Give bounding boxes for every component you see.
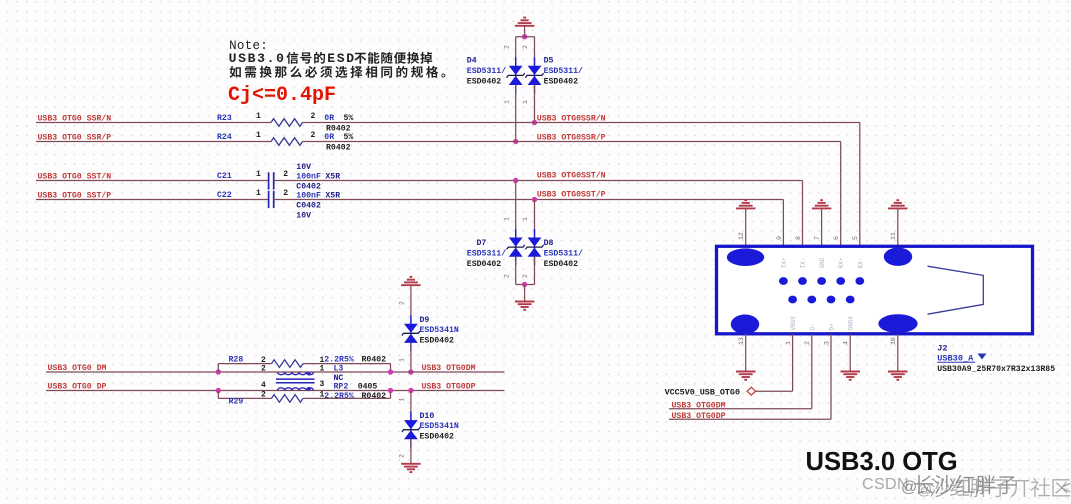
resistor R28: [272, 360, 304, 368]
power port VCC5V0_USB_OTG0 diamond: [747, 387, 755, 395]
wire SSR/N drop to J2 pin5: [859, 123, 861, 247]
svg-text:2: 2: [283, 170, 288, 179]
svg-text:1: 1: [256, 170, 261, 179]
wire J2 pin10 to ground: [897, 334, 899, 371]
ESD diode D4: [507, 57, 525, 93]
label D10 footprint ESD0402: [420, 433, 454, 442]
label C21 footprint C0402: [296, 183, 321, 192]
wire D7/D8 bottom bar: [516, 284, 535, 286]
ground GND above J2 pin11: [888, 200, 908, 208]
svg-text:1: 1: [504, 217, 511, 221]
note text line 2 (chinese): [230, 66, 446, 78]
wire USB3_OTG0_SSR/N right segment: [303, 122, 860, 124]
svg-text:2: 2: [399, 454, 406, 458]
svg-text:4: 4: [843, 341, 850, 345]
label C21 value 100nF X5R: [296, 172, 340, 181]
wire D10 pin1 lead: [410, 391, 412, 421]
label C22 footprint C0402: [296, 202, 321, 211]
label L3: [334, 364, 344, 373]
ESD diode D10: [402, 412, 420, 448]
svg-text:1: 1: [785, 341, 792, 345]
svg-text:D5: D5: [544, 56, 554, 65]
wire J2 pin1 VBUS drop: [792, 334, 794, 391]
inductor L3 winding (DM): [278, 372, 314, 375]
junction R28 branch right on DM: [388, 369, 393, 374]
svg-text:ESD0402: ESD0402: [544, 260, 578, 269]
label D8: [544, 239, 554, 248]
svg-text:ESD5341N: ESD5341N: [420, 326, 459, 335]
wire SST/N drop to J2 pin8: [802, 181, 804, 247]
wire D4 pin1 lead to SSR/P: [515, 85, 517, 142]
J2 shell pad top-left (pin 12): [727, 248, 764, 266]
svg-text:3: 3: [823, 341, 830, 345]
junction R28 branch left on DM: [216, 369, 221, 374]
svg-text:9: 9: [776, 236, 783, 240]
svg-text:<: <: [1060, 478, 1071, 499]
svg-text:10: 10: [890, 337, 897, 345]
svg-text:0R: 0R: [324, 114, 334, 123]
label D5: [544, 56, 554, 65]
svg-text:7: 7: [814, 236, 821, 240]
svg-text:D-: D-: [809, 323, 816, 330]
junction D10 on DP: [408, 388, 413, 393]
label D8 footprint ESD0402: [544, 260, 578, 269]
wire D10 pin2 lead: [410, 439, 412, 464]
svg-text:1: 1: [320, 365, 325, 374]
junction D4/D5 common node: [522, 34, 527, 39]
svg-text:R0402: R0402: [326, 144, 351, 153]
svg-text:2: 2: [283, 189, 288, 198]
svg-text:TX-: TX-: [800, 258, 807, 269]
label R23: [217, 114, 232, 123]
junction D7 on SST/N: [513, 178, 518, 183]
wire D4/D5 top bar: [516, 36, 535, 38]
wire SST/P drop to J2 pin9: [782, 200, 784, 247]
wire R28 branch left riser: [217, 364, 219, 372]
connector J2 body: [717, 246, 1033, 333]
wire D7 pin2 lead: [515, 256, 517, 284]
svg-text:R29: R29: [229, 397, 244, 406]
wire R28 branch right riser: [390, 364, 392, 372]
svg-text:Cj<=0.4pF: Cj<=0.4pF: [228, 84, 336, 107]
svg-text:2: 2: [522, 45, 529, 49]
svg-text:ESD0402: ESD0402: [467, 77, 501, 86]
label R29 value 2.2R5%: [324, 392, 386, 401]
svg-text:TX+: TX+: [781, 257, 788, 268]
svg-text:12: 12: [738, 232, 745, 240]
svg-text:RP2: RP2: [334, 383, 349, 392]
wire R28 branch left segment: [218, 363, 271, 365]
svg-text:0405: 0405: [358, 383, 378, 392]
svg-text:ESD0402: ESD0402: [420, 433, 454, 442]
svg-text:4: 4: [261, 381, 266, 390]
wire ground stem to junction: [524, 26, 526, 37]
svg-text:1: 1: [399, 358, 406, 362]
resistor R29: [272, 395, 304, 403]
svg-text:5: 5: [852, 236, 859, 240]
J2 shell pad top-right (pin 11): [884, 248, 912, 266]
svg-text:ESD0402: ESD0402: [467, 260, 501, 269]
ESD diode D7: [507, 229, 525, 265]
svg-text:0R: 0R: [324, 133, 334, 142]
junction D9 on DM: [408, 369, 413, 374]
J2 contact dots (USB2 row): [788, 296, 854, 304]
wire USB3_OTG0_SSR/P right segment: [303, 141, 841, 143]
svg-text:2: 2: [504, 274, 511, 278]
svg-text:USB3.0 OTG: USB3.0 OTG: [806, 448, 958, 476]
ground GND (above D9): [401, 277, 421, 285]
wire D8 pin1 lead: [534, 200, 536, 238]
svg-text:ESD: ESD: [327, 51, 356, 66]
label D4 footprint ESD0402: [467, 77, 501, 86]
svg-text:11: 11: [890, 232, 897, 240]
wire D9 pin1 lead to DM: [410, 343, 412, 373]
svg-text:C0402: C0402: [296, 183, 321, 192]
label J2 value USB30_A_V: [937, 354, 986, 364]
svg-text:3: 3: [320, 380, 325, 389]
wire J2 pin3 riser: [830, 334, 832, 419]
label R24: [217, 133, 232, 142]
label D7: [477, 239, 487, 248]
svg-text:2: 2: [522, 274, 529, 278]
label D8 value ESD5311/: [544, 249, 583, 259]
svg-text:@: @: [901, 479, 917, 496]
svg-text:USB3 OTG0DP: USB3 OTG0DP: [422, 383, 476, 392]
svg-text:2: 2: [804, 341, 811, 345]
svg-text:J2: J2: [937, 343, 947, 353]
label C21: [217, 172, 232, 181]
resistor R23: [271, 119, 303, 127]
svg-text:R28: R28: [229, 356, 244, 365]
wire USB3_OTG0_SSR/P left segment: [36, 141, 271, 143]
junction D8 on SST/P: [532, 197, 537, 202]
wire R29 branch left riser: [217, 391, 219, 399]
svg-text:ESD5311/: ESD5311/: [544, 66, 583, 76]
ESD diode D8: [525, 229, 543, 265]
wire J2 pin13 to ground: [745, 334, 747, 371]
label R28: [229, 356, 244, 365]
svg-text:R24: R24: [217, 133, 232, 142]
svg-text:1: 1: [256, 112, 261, 121]
svg-text:1: 1: [256, 131, 261, 140]
svg-text:2: 2: [504, 45, 511, 49]
wire USB3_OTG0DP to J2 pin3: [669, 418, 831, 420]
svg-text:USB3 OTG0DM: USB3 OTG0DM: [422, 364, 476, 373]
resistor R24: [271, 138, 303, 146]
wire D4 pin2 lead: [515, 37, 517, 66]
svg-text:ESD0402: ESD0402: [544, 77, 578, 86]
svg-text:USB3 OTG0SST/P: USB3 OTG0SST/P: [537, 189, 606, 199]
wire D7 pin1 lead: [515, 181, 517, 238]
svg-text:RX+: RX+: [838, 257, 845, 268]
svg-text:1: 1: [522, 217, 529, 221]
label NC: [334, 374, 344, 383]
wire stub GND above J2 pin7: [821, 208, 823, 246]
junction D5 on SSR/N: [532, 120, 537, 125]
watermark ghost layer: [917, 478, 1071, 499]
wire stub GND above J2 pin11: [897, 208, 899, 246]
svg-text:1: 1: [504, 100, 511, 104]
svg-text:D8: D8: [544, 239, 554, 248]
svg-text:2: 2: [311, 112, 316, 121]
svg-text:2: 2: [261, 390, 266, 399]
label D10: [420, 412, 435, 421]
label C22 value 100nF X5R: [296, 191, 340, 200]
wire USB3_OTG0_SST/N right segment: [274, 180, 803, 182]
J2 shell pad bottom-right (pin 10): [878, 314, 917, 333]
wire R28 branch right segment: [303, 363, 391, 365]
label D7 value ESD5311/: [467, 249, 506, 259]
wire USB3_OTG0_DP main: [46, 390, 505, 392]
label R24 footprint R0402: [326, 144, 351, 153]
J2 shell pad bottom-left (pin 13): [731, 315, 759, 335]
svg-text:D9: D9: [420, 316, 430, 325]
label J2 footprint USB30A9_25R70x7R32x13R85: [937, 365, 1055, 374]
svg-text:USB3.0: USB3.0: [229, 51, 286, 66]
ground GND above J2 pin7: [812, 200, 832, 208]
wire D5 pin2 lead: [534, 37, 536, 66]
label C21 voltage 10V: [296, 163, 311, 172]
wire USB3_OTG0_SST/P right segment: [274, 199, 784, 201]
svg-text:8: 8: [795, 236, 802, 240]
wire J2 pin4 to ground: [849, 334, 851, 371]
label D9 footprint ESD0402: [420, 337, 454, 346]
svg-text:10V: 10V: [296, 211, 311, 220]
svg-text:ESD0402: ESD0402: [420, 337, 454, 346]
label RP2 0405: [334, 383, 378, 392]
svg-text:USB3 OTG0SST/N: USB3 OTG0SST/N: [537, 170, 606, 180]
ground GND (top, D4/D5): [515, 18, 535, 26]
label C22 voltage 10V: [296, 211, 311, 220]
wire J2 pin2 riser: [811, 334, 813, 409]
ESD diode D5: [525, 57, 543, 93]
label R23 value 0R 5%: [324, 114, 353, 123]
svg-text:USB3 OTG0SSR/P: USB3 OTG0SSR/P: [537, 132, 606, 142]
wire USB3_OTG0_SST/N left segment: [36, 180, 268, 182]
wire D8 pin2 lead: [534, 256, 536, 284]
ground GND below J2 pin10: [888, 372, 908, 380]
wire USB3_OTG0DM to J2 pin2: [669, 408, 812, 410]
label D4 value ESD5311/: [467, 66, 506, 76]
svg-text:ESD5311/: ESD5311/: [467, 66, 506, 76]
label D9: [420, 316, 430, 325]
svg-text:ESD5341N: ESD5341N: [420, 422, 459, 431]
junction R29 branch right on DP: [388, 388, 393, 393]
choke core bars RP2: [276, 379, 315, 383]
svg-text:D7: D7: [477, 239, 487, 248]
svg-text:C0402: C0402: [296, 202, 321, 211]
svg-text:2: 2: [399, 301, 406, 305]
wire D9 pin2 lead: [410, 285, 412, 324]
svg-text:D+: D+: [829, 323, 836, 331]
label D4: [467, 56, 477, 65]
capacitor C21: [269, 172, 274, 189]
label D5 value ESD5311/: [544, 66, 583, 76]
ground GND below J2 pin13: [736, 372, 756, 380]
wire SSR/P drop to J2 pin6: [840, 142, 842, 247]
label D5 footprint ESD0402: [544, 77, 578, 86]
svg-text:1: 1: [522, 100, 529, 104]
ESD diode D9: [402, 315, 420, 351]
wire R29 branch right riser: [390, 391, 392, 399]
label R24 value 0R 5%: [324, 133, 353, 142]
svg-text:5%: 5%: [344, 114, 354, 123]
label R23 footprint R0402: [326, 125, 351, 134]
label R28 value 2.2R5%: [324, 355, 386, 364]
svg-text:L3: L3: [334, 364, 344, 373]
J2 USB plug glyph: [928, 266, 984, 314]
wire R29 branch right segment: [303, 397, 391, 399]
wire R29 branch left segment: [218, 397, 271, 399]
label J2: [937, 343, 947, 353]
wire USB3_OTG0_SSR/N left segment: [36, 122, 271, 124]
label D10 value ESD5341N: [420, 422, 459, 431]
wire D5 pin1 lead to SSR/N: [534, 85, 536, 123]
capacitor C22: [269, 191, 274, 208]
svg-text:2: 2: [261, 365, 266, 374]
svg-text:D4: D4: [467, 56, 477, 65]
svg-text:1: 1: [399, 398, 406, 402]
svg-text:GND4: GND4: [848, 316, 855, 331]
svg-text:5%: 5%: [344, 133, 354, 142]
label D7 footprint ESD0402: [467, 260, 501, 269]
svg-text:VCC5V0_USB_OTG0: VCC5V0_USB_OTG0: [665, 387, 740, 397]
junction D4 on SSR/P: [513, 139, 518, 144]
svg-text:10V: 10V: [296, 163, 311, 172]
label C22: [217, 191, 232, 200]
ground GND (below D7/D8): [515, 302, 535, 310]
svg-text:USB30A9_25R70x7R32x13R85: USB30A9_25R70x7R32x13R85: [937, 365, 1055, 374]
note text line 1 (chinese): [229, 51, 433, 66]
watermark CSDN: [862, 475, 1016, 496]
svg-text:2.2R5%: 2.2R5%: [324, 392, 354, 401]
svg-text:C22: C22: [217, 191, 232, 200]
wire stem to ground: [524, 285, 526, 302]
svg-text:ESD5311/: ESD5311/: [467, 249, 506, 259]
svg-text:VBUS: VBUS: [790, 316, 797, 331]
svg-text:2: 2: [311, 131, 316, 140]
svg-text:ESD5311/: ESD5311/: [544, 249, 583, 259]
junction R29 branch left on DP: [216, 388, 221, 393]
svg-text:6: 6: [833, 236, 840, 240]
svg-text:C21: C21: [217, 172, 232, 181]
svg-text:13: 13: [738, 337, 745, 345]
label R29: [229, 397, 244, 406]
svg-text:@: @: [917, 482, 932, 499]
J2 contact dots (USB3 row): [779, 277, 864, 285]
label D9 value ESD5341N: [420, 326, 459, 335]
svg-text:1: 1: [256, 189, 261, 198]
ground GND (below D10): [401, 464, 421, 472]
junction D7/D8 ground node: [522, 282, 527, 287]
wire stub GND above J2 pin12: [745, 208, 747, 246]
svg-text:USB3 OTG0SSR/N: USB3 OTG0SSR/N: [537, 113, 606, 123]
wire USB3_OTG0_SST/P left segment: [36, 199, 268, 201]
ground GND above J2 pin12: [736, 200, 756, 208]
svg-text:R23: R23: [217, 114, 232, 123]
svg-text:GND: GND: [819, 257, 826, 268]
svg-text:RX-: RX-: [857, 258, 864, 269]
svg-text:R0402: R0402: [362, 392, 387, 401]
wire USB3_OTG0_DM main: [46, 371, 505, 373]
svg-text:D10: D10: [420, 412, 435, 421]
wire VBUS to power port: [756, 390, 793, 392]
ground GND below J2 pin4: [841, 372, 861, 380]
choke RP2 winding (DP): [278, 387, 314, 391]
